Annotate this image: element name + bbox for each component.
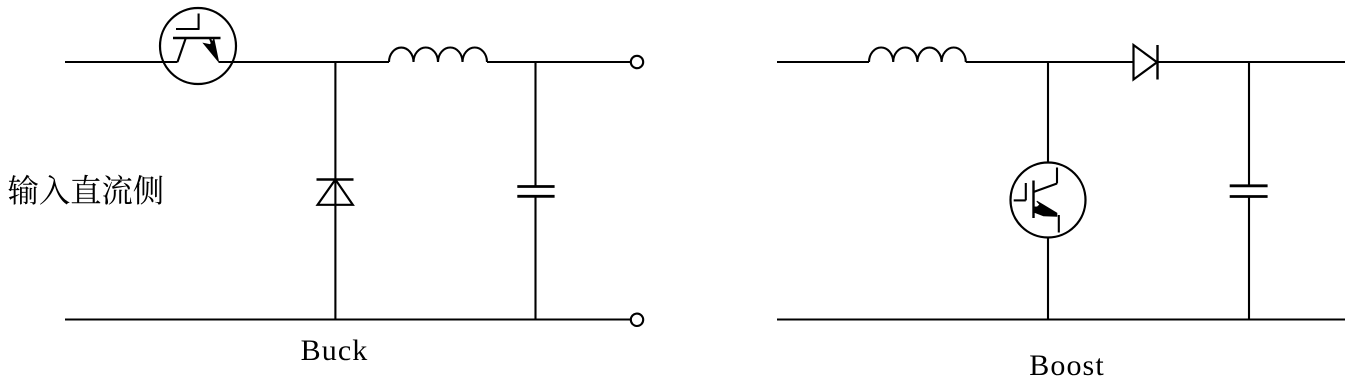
node: Buck output terminal + (631, 56, 643, 68)
transistor V1 (IGBT in circle, Buck switch) (160, 8, 236, 84)
wire: Boost bottom rail (777, 318, 1345, 320)
inductor L1 (Buck) (389, 48, 487, 62)
wire: Buck diode branch upper (334, 62, 336, 180)
node: Buck output terminal - (631, 314, 643, 326)
diode VD2 (Boost) (1134, 45, 1158, 80)
wire: Buck capacitor branch upper (534, 62, 536, 187)
svg-text:Buck: Buck (301, 334, 369, 367)
diode VD1 (Buck freewheeling diode) (317, 180, 354, 205)
wire: Boost top rail right segment (1158, 61, 1346, 63)
capacitor C2 (Boost output) (1230, 186, 1268, 197)
wire: Boost top rail left segment (777, 61, 869, 63)
wire: Boost switch branch upper (1047, 62, 1049, 163)
wire: Buck top rail right segment (inductor to output terminal) (487, 61, 631, 63)
wire: Buck top rail middle segment (switch to inductor) (219, 61, 390, 63)
wire: Buck bottom rail (65, 318, 631, 320)
wire: Boost capacitor branch lower (1248, 197, 1250, 320)
wire: Buck diode branch lower (334, 180, 336, 320)
inductor L2 (Boost) (869, 47, 966, 62)
svg-text:Boost: Boost (1029, 349, 1105, 382)
wire: Boost capacitor branch upper (1248, 62, 1250, 186)
capacitor C1 (Buck output) (517, 187, 554, 197)
node label: 输入直流侧 (input DC side) (8, 175, 162, 205)
wire: Buck capacitor branch lower (534, 196, 536, 319)
wire: Boost switch branch lower (1047, 238, 1049, 320)
wire: Boost top rail middle segment (inductor to diode) (966, 61, 1134, 63)
transistor V2 (IGBT in circle, Boost switch) (1011, 163, 1086, 238)
wire: Buck top rail left segment (65, 61, 178, 63)
